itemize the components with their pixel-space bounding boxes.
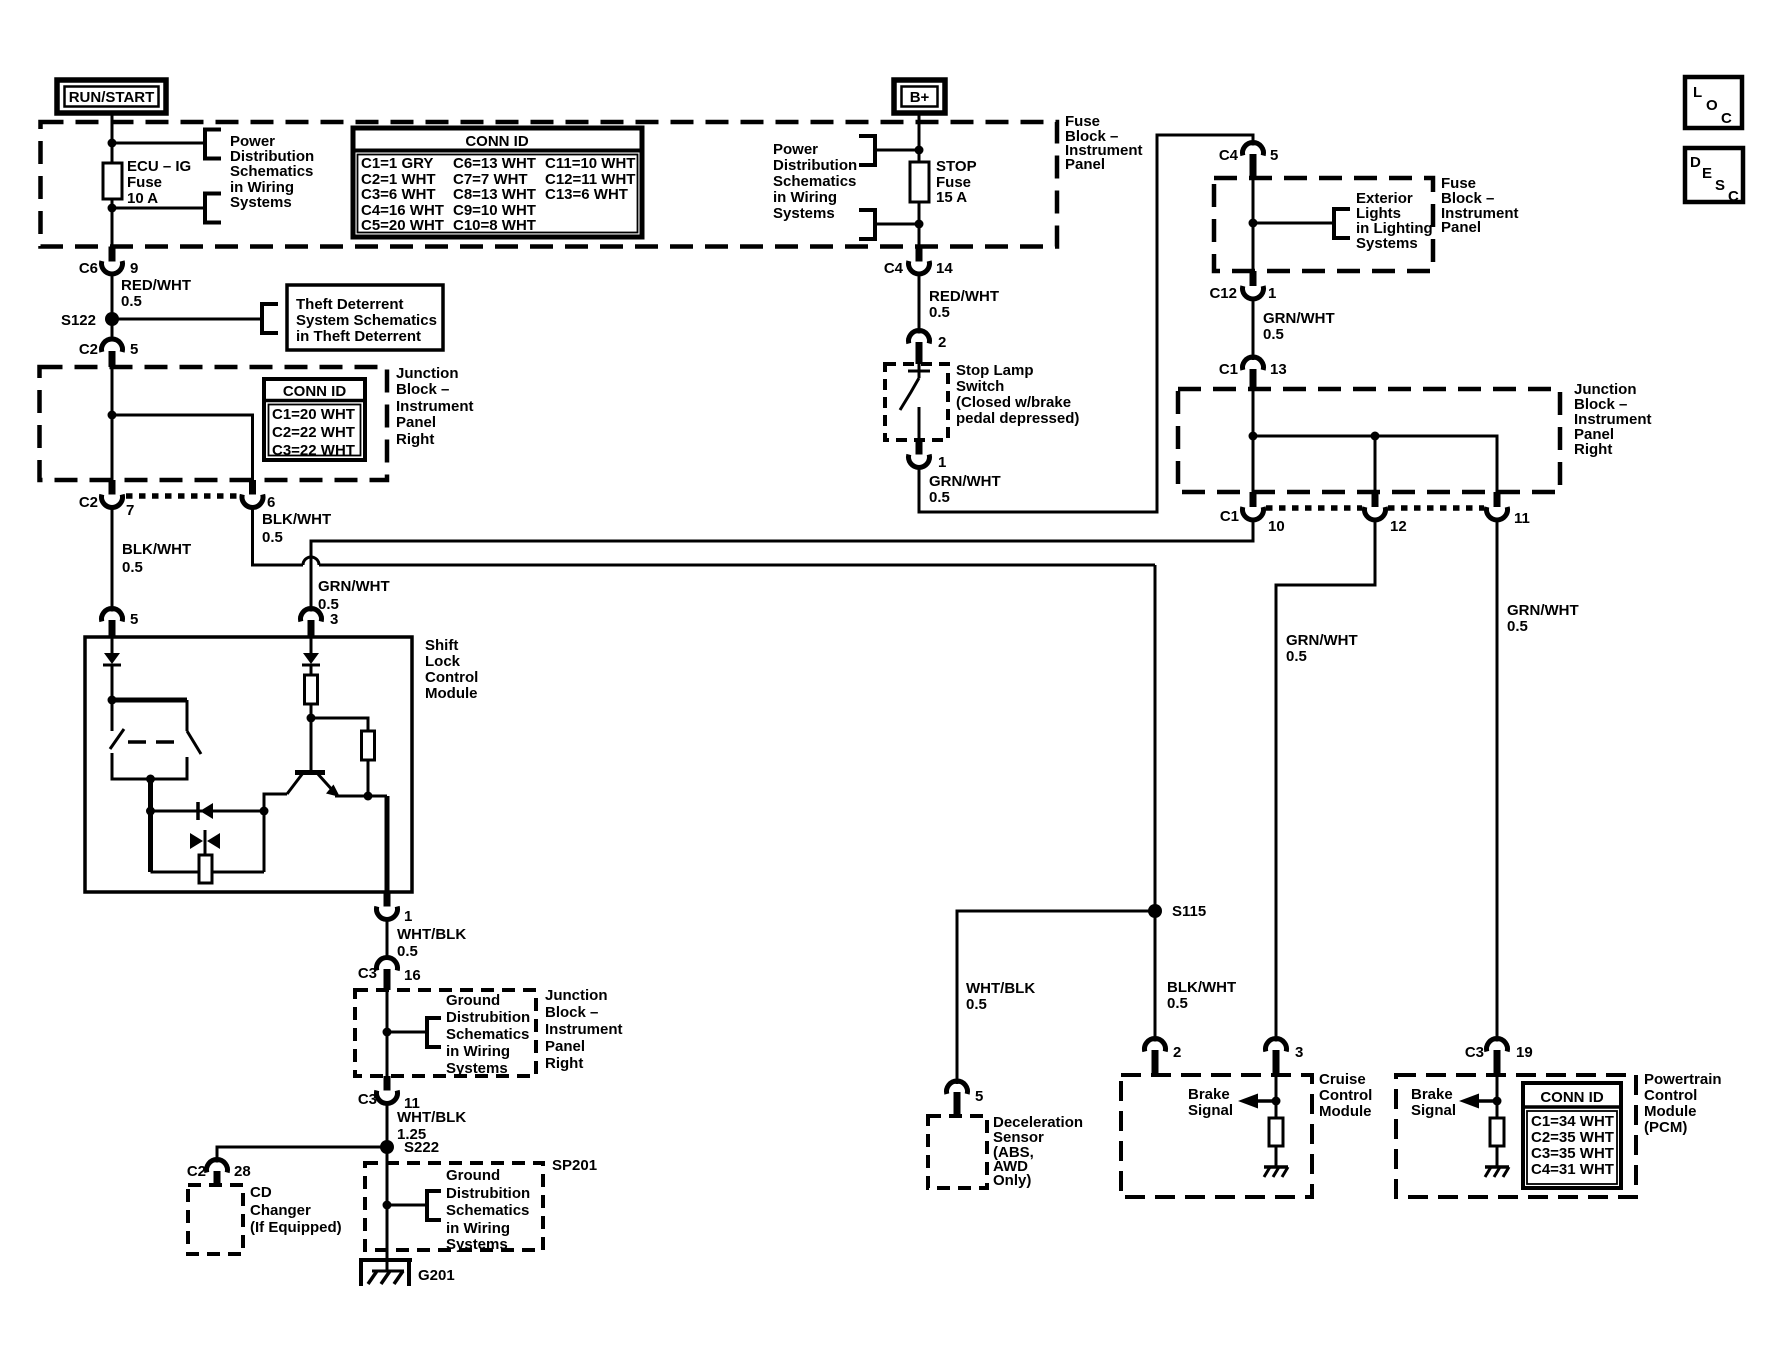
svg-text:C12: C12 [1209, 285, 1237, 302]
node: junction below ECU-IG fuse [108, 204, 117, 213]
cruise load resistor [1269, 1118, 1283, 1146]
connector cruise pin 2 [1145, 1039, 1182, 1075]
label Powertrain Control Module (PCM) [1644, 1071, 1722, 1136]
diode D-right (brake input) [302, 637, 320, 675]
wire below STOP fuse [918, 202, 921, 247]
wire to power distribution reference (upper) [112, 142, 205, 145]
svg-text:Changer: Changer [250, 1202, 311, 1219]
svg-text:Junction: Junction [396, 365, 459, 382]
svg-text:in Wiring: in Wiring [773, 189, 837, 206]
fuse STOP 15A [910, 162, 929, 202]
off-page bracket (exterior lights) [1334, 209, 1350, 238]
connector C1 pin 13 [1219, 357, 1287, 389]
svg-text:5: 5 [1270, 147, 1278, 164]
svg-text:Schematics: Schematics [446, 1202, 529, 1219]
svg-text:11: 11 [1514, 510, 1530, 527]
node below STOP fuse [915, 220, 924, 229]
label Stop Lamp Switch [956, 362, 1079, 427]
connector C2 pin 28 [187, 1160, 251, 1185]
wire to power distribution reference (lower) [112, 207, 205, 210]
label Junction Block - Instrument Panel Right (left) [396, 365, 474, 448]
svg-text:C5=20 WHT: C5=20 WHT [361, 217, 444, 234]
svg-text:Panel: Panel [1065, 156, 1105, 173]
wire switch to snubber rails (thick) [148, 779, 153, 872]
svg-text:BLK/WHT: BLK/WHT [262, 511, 331, 528]
node above switch [108, 696, 117, 705]
connector C3 pin 11 [358, 1076, 420, 1112]
label Ground Distrubition Schematics in Wiring Systems (2) [446, 1167, 530, 1253]
off-page bracket (ground distribution 2) [427, 1191, 441, 1220]
label Fuse Block - Instrument Panel (right) [1441, 175, 1519, 236]
svg-text:WHT/BLK: WHT/BLK [966, 980, 1035, 997]
svg-text:12: 12 [1390, 518, 1407, 535]
cruise internal ground [1264, 1146, 1288, 1177]
svg-text:L: L [1693, 84, 1702, 101]
wire pullup to emitter node [367, 760, 370, 796]
svg-text:G201: G201 [418, 1267, 455, 1284]
svg-text:Cruise: Cruise [1319, 1071, 1366, 1088]
node base [307, 714, 316, 723]
svg-text:Stop Lamp: Stop Lamp [956, 362, 1034, 379]
svg-text:14: 14 [936, 260, 953, 277]
svg-text:CONN ID: CONN ID [283, 383, 347, 400]
svg-text:1: 1 [404, 908, 412, 925]
label Fuse Block - Instrument Panel (top) [1065, 113, 1143, 173]
legend LOC box [1685, 77, 1742, 128]
cruise control module dashed box [1121, 1075, 1312, 1197]
svg-text:C1=1 GRY: C1=1 GRY [361, 155, 433, 172]
wire RUN/START to fuse block [111, 113, 114, 143]
svg-text:10 A: 10 A [127, 190, 158, 207]
svg-text:Right: Right [396, 431, 434, 448]
svg-text:Only): Only) [993, 1172, 1031, 1189]
svg-text:Module: Module [425, 685, 478, 702]
table CONN ID (PCM) [1523, 1083, 1621, 1188]
svg-text:0.5: 0.5 [966, 996, 987, 1013]
svg-text:C2: C2 [79, 494, 98, 511]
svg-text:C3=22 WHT: C3=22 WHT [272, 442, 355, 459]
svg-text:C4=31 WHT: C4=31 WHT [1531, 1161, 1614, 1178]
connector C12 pin 1 [1209, 271, 1276, 302]
svg-text:Panel: Panel [396, 414, 436, 431]
legend DESC box [1685, 148, 1743, 205]
connector shift lock pin 1 [377, 892, 413, 925]
resistor R-pullup [362, 731, 375, 760]
wire collector branch [264, 794, 287, 872]
wire to power distribution reference (B+ lower) [875, 223, 919, 226]
junction block (ground distribution) dashed box [355, 990, 536, 1076]
svg-text:BLK/WHT: BLK/WHT [1167, 979, 1236, 996]
label BLK/WHT 0.5 (cruise drop) [1167, 979, 1236, 1012]
svg-text:C10=8 WHT: C10=8 WHT [453, 217, 536, 234]
svg-text:Schematics: Schematics [230, 163, 313, 180]
svg-text:Ground: Ground [446, 992, 500, 1009]
switch lower U wire [112, 753, 187, 779]
connector C1 pin 10 [1220, 492, 1285, 535]
PCM brake signal arrow [1411, 1075, 1502, 1119]
shift lock control module box [85, 637, 412, 892]
connector pin 6 [242, 480, 275, 511]
wire S115 to deceleration sensor, WHT/BLK 0.5 [957, 911, 1155, 1084]
svg-text:Instrument: Instrument [545, 1021, 623, 1038]
svg-text:28: 28 [234, 1163, 251, 1180]
svg-text:0.5: 0.5 [121, 293, 142, 310]
label Ground Distrubition Schematics in Wiring Systems (1) [446, 992, 530, 1077]
svg-text:C13=6 WHT: C13=6 WHT [545, 186, 628, 203]
svg-text:0.5: 0.5 [929, 489, 950, 506]
fuse block instrument panel (right dashed box) [1214, 178, 1433, 271]
svg-text:6: 6 [267, 494, 275, 511]
svg-text:16: 16 [404, 967, 421, 984]
svg-text:0.5: 0.5 [1167, 995, 1188, 1012]
splice S122 [105, 312, 119, 326]
svg-text:5: 5 [975, 1088, 983, 1105]
wire S222 to CD changer [217, 1147, 387, 1163]
wire S222 through SP201 [386, 1147, 389, 1271]
svg-text:2: 2 [1173, 1044, 1181, 1061]
svg-text:Right: Right [1574, 441, 1612, 458]
off-page bracket (power distribution upper) [205, 130, 221, 159]
wire into ECU-IG fuse [111, 143, 114, 163]
connector C6 pin 9 [79, 247, 139, 278]
svg-text:Instrument: Instrument [396, 398, 474, 415]
svg-text:C4: C4 [884, 260, 904, 277]
svg-text:C11=10 WHT: C11=10 WHT [545, 155, 635, 172]
svg-text:Distribution: Distribution [773, 157, 857, 174]
wire pin 12 to cruise pin 3, GRN/WHT 0.5 [1276, 520, 1375, 1042]
wire C4-14 to stop lamp switch, RED/WHT 0.5 [918, 274, 921, 334]
junction block instrument panel right (left dashed box) [40, 367, 388, 480]
svg-text:Fuse: Fuse [127, 174, 162, 191]
fuse block instrument panel (top dashed box) [41, 122, 1058, 247]
svg-text:in Theft Deterrent: in Theft Deterrent [296, 328, 421, 345]
svg-text:0.5: 0.5 [262, 529, 283, 546]
stop lamp switch contacts [900, 364, 930, 440]
svg-text:Distrubition: Distrubition [446, 1185, 530, 1202]
node: junction above ECU-IG fuse [108, 139, 117, 148]
wire base node to pullup resistor [311, 718, 368, 731]
wire hop over GRN/WHT vertical [303, 557, 319, 565]
wire junction to pin 6 leg [112, 415, 253, 480]
svg-text:S115: S115 [1172, 903, 1206, 920]
svg-text:C2=22 WHT: C2=22 WHT [272, 424, 355, 441]
svg-text:Schematics: Schematics [446, 1026, 529, 1043]
off-page bracket (theft deterrent) [262, 304, 278, 333]
node above STOP fuse [915, 146, 924, 155]
node mid rail left [146, 807, 155, 816]
wire through right fuse block [1252, 178, 1255, 271]
connector stop lamp pin 1 [909, 440, 947, 471]
svg-text:C6: C6 [79, 260, 98, 277]
node ground dist [383, 1028, 392, 1037]
wire emitter node to output [335, 795, 368, 798]
svg-text:Switch: Switch [956, 378, 1004, 395]
svg-text:ECU – IG: ECU – IG [127, 158, 191, 175]
svg-text:C8=13 WHT: C8=13 WHT [453, 186, 536, 203]
label Junction Block - Instrument Panel Right (bottom) [545, 987, 623, 1072]
svg-text:7: 7 [126, 502, 134, 519]
mid rail with diode [151, 810, 265, 813]
wire below ECU-IG fuse [111, 199, 114, 247]
svg-text:9: 9 [130, 260, 138, 277]
svg-text:S122: S122 [61, 312, 96, 329]
splice package SP201 dashed box [365, 1163, 543, 1250]
svg-text:CONN ID: CONN ID [465, 133, 529, 150]
resistor R-snubber [199, 855, 212, 883]
svg-text:1: 1 [938, 454, 946, 471]
power feed RUN/START [57, 80, 166, 113]
power feed B+ [894, 80, 945, 113]
bottom rail [151, 871, 200, 874]
label Power Distribution Schematics in Wiring Systems (middle) [773, 141, 857, 222]
junction block instrument panel right (right dashed box) [1178, 389, 1560, 492]
svg-text:5: 5 [130, 341, 138, 358]
PCM internal ground [1485, 1146, 1509, 1177]
node mid rail right [260, 807, 269, 816]
svg-text:3: 3 [330, 611, 338, 628]
svg-text:GRN/WHT: GRN/WHT [1286, 632, 1358, 649]
connector C2 pin 5 [79, 339, 139, 367]
svg-text:1: 1 [1268, 285, 1276, 302]
cruise brake signal arrow [1188, 1075, 1281, 1119]
svg-text:10: 10 [1268, 518, 1285, 535]
svg-text:C1=20 WHT: C1=20 WHT [272, 406, 355, 423]
svg-text:Block –: Block – [545, 1004, 598, 1021]
connector C1 pin 12 [1365, 492, 1407, 535]
svg-text:WHT/BLK: WHT/BLK [397, 1109, 466, 1126]
svg-text:Panel: Panel [545, 1038, 585, 1055]
table CONN ID (fuse block top) [353, 128, 642, 237]
switch (shift lock) upper rail [112, 698, 187, 703]
wire pin 6 BLK/WHT 0.5 to S115 (long horizontal with hop) [262, 511, 331, 546]
connector shift lock pin 5 [102, 609, 139, 637]
splice S115 [1148, 904, 1162, 918]
svg-text:C1: C1 [1220, 508, 1239, 525]
svg-text:Systems: Systems [446, 1236, 508, 1253]
label Junction Block - Instrument Panel Right (right) [1574, 381, 1652, 458]
svg-text:Systems: Systems [446, 1060, 508, 1077]
svg-text:Module: Module [1319, 1103, 1372, 1120]
switch right contact and blade [186, 700, 189, 731]
resistor R-base [305, 675, 318, 704]
connector C2 pin 7 [79, 480, 135, 519]
svg-text:SP201: SP201 [552, 1157, 597, 1174]
svg-text:Theft Deterrent: Theft Deterrent [296, 296, 404, 313]
svg-text:Panel: Panel [1441, 219, 1481, 236]
connector C4 pin 5 [1219, 143, 1279, 178]
svg-text:C: C [1728, 188, 1739, 205]
wire C6-9 to S122, RED/WHT 0.5 [111, 274, 114, 339]
dotted connector line C2 7-6 [126, 493, 240, 499]
svg-text:E: E [1702, 165, 1712, 182]
wire through box [386, 990, 389, 1076]
wire to power distribution reference (B+ upper) [875, 149, 919, 152]
transistor Q1 [287, 718, 340, 797]
svg-text:C2: C2 [187, 1163, 206, 1180]
svg-text:Powertrain: Powertrain [1644, 1071, 1722, 1088]
node on switch lower wire [146, 775, 155, 784]
connector C3 pin 16 [358, 958, 421, 990]
svg-text:Brake: Brake [1411, 1086, 1453, 1103]
wire pin 11 to PCM C3-19, GRN/WHT 0.5 [1496, 520, 1499, 1042]
svg-text:15 A: 15 A [936, 189, 967, 206]
svg-text:Schematics: Schematics [773, 173, 856, 190]
svg-text:Brake: Brake [1188, 1086, 1230, 1103]
wire output (thick) to module bottom [385, 796, 390, 892]
node exterior lights [1249, 219, 1258, 228]
wire to ground dist reference 2 [387, 1204, 427, 1207]
svg-text:19: 19 [1516, 1044, 1533, 1061]
connector C1 pin 11 [1487, 492, 1530, 527]
svg-text:STOP: STOP [936, 158, 977, 175]
ground G201 [359, 1260, 455, 1286]
svg-text:in Wiring: in Wiring [446, 1043, 510, 1060]
wire C2-7 to shift lock pin 5, BLK/WHT 0.5 [111, 508, 114, 612]
PCM load resistor [1490, 1118, 1504, 1146]
connector stop lamp pin 2 [909, 331, 947, 364]
deceleration sensor dashed box [928, 1116, 987, 1188]
svg-text:C1: C1 [1219, 361, 1238, 378]
svg-text:0.5: 0.5 [1507, 618, 1528, 635]
connector cruise pin 3 [1266, 1039, 1304, 1075]
svg-text:System Schematics: System Schematics [296, 312, 437, 329]
svg-text:C2=35 WHT: C2=35 WHT [1531, 1129, 1614, 1146]
svg-text:GRN/WHT: GRN/WHT [929, 473, 1001, 490]
svg-text:C1=34 WHT: C1=34 WHT [1531, 1113, 1614, 1130]
svg-text:0.5: 0.5 [1286, 648, 1307, 665]
svg-text:Systems: Systems [230, 194, 292, 211]
svg-text:C4: C4 [1219, 147, 1239, 164]
svg-text:BLK/WHT: BLK/WHT [122, 541, 191, 558]
svg-text:13: 13 [1270, 361, 1287, 378]
svg-text:C3: C3 [1465, 1044, 1484, 1061]
connector deceleration sensor pin 5 [946, 1081, 983, 1116]
svg-text:Control: Control [425, 669, 478, 686]
dotted connector line C1 10-12 [1266, 505, 1362, 511]
diode D-mid (points left) [198, 802, 213, 820]
svg-text:Junction: Junction [545, 987, 608, 1004]
node SP201 [383, 1201, 392, 1210]
switch left contact [111, 700, 114, 731]
svg-text:0.5: 0.5 [397, 943, 418, 960]
svg-text:S222: S222 [404, 1139, 439, 1156]
label Shift Lock Control Module [425, 637, 478, 702]
svg-text:Control: Control [1644, 1087, 1697, 1104]
table CONN ID (junction block left) [264, 379, 365, 460]
svg-text:0.5: 0.5 [1263, 326, 1284, 343]
label Cruise Control Module [1319, 1071, 1372, 1120]
wire S122 to theft deterrent reference [112, 318, 262, 321]
svg-text:C: C [1721, 110, 1732, 127]
off-page bracket (ground distribution 1) [427, 1018, 441, 1047]
svg-text:Systems: Systems [773, 205, 835, 222]
node emitter [364, 792, 373, 801]
svg-text:GRN/WHT: GRN/WHT [1507, 602, 1579, 619]
svg-text:C2: C2 [79, 341, 98, 358]
svg-text:5: 5 [130, 611, 138, 628]
switch gang dashes [128, 740, 184, 744]
wire pin1 GRN/WHT 0.5 routed up to C4-5 [919, 135, 1253, 512]
svg-text:3: 3 [1295, 1044, 1303, 1061]
wire C3-11 to S222, WHT/BLK 1.25 [386, 1104, 389, 1148]
svg-text:Right: Right [545, 1055, 583, 1072]
svg-text:Distrubition: Distrubition [446, 1009, 530, 1026]
svg-text:GRN/WHT: GRN/WHT [318, 578, 390, 595]
svg-text:in Wiring: in Wiring [446, 1220, 510, 1237]
connector C4 pin 14 [884, 247, 954, 278]
wire GRN/WHT from C1-10 long horizontal [311, 520, 1253, 612]
CD changer dashed box [188, 1185, 243, 1254]
svg-text:GRN/WHT: GRN/WHT [1263, 310, 1335, 327]
connector shift lock pin 3 [301, 609, 339, 637]
off-page bracket (B+ power distribution lower) [859, 210, 875, 239]
powertrain control module dashed box [1396, 1075, 1636, 1197]
wire pin1 to C3-16, WHT/BLK 0.5 [386, 920, 389, 958]
svg-text:Signal: Signal [1411, 1102, 1456, 1119]
splice S222 [380, 1140, 394, 1154]
svg-text:RED/WHT: RED/WHT [121, 277, 191, 294]
svg-text:B+: B+ [910, 89, 930, 106]
callout box Theft Deterrent [287, 285, 443, 350]
svg-text:Module: Module [1644, 1103, 1697, 1120]
svg-text:D: D [1690, 154, 1701, 171]
wire C12-1 to C1-13, GRN/WHT 0.5 [1252, 299, 1255, 361]
wire pin 6 line down to S115 and cruise pin 2 [1154, 565, 1157, 1042]
svg-text:WHT/BLK: WHT/BLK [397, 926, 466, 943]
svg-text:(Closed w/brake: (Closed w/brake [956, 394, 1071, 411]
svg-text:2: 2 [938, 334, 946, 351]
wires inside right junction block [1252, 389, 1255, 492]
svg-text:Systems: Systems [1356, 235, 1418, 252]
svg-text:Signal: Signal [1188, 1102, 1233, 1119]
svg-text:CD: CD [250, 1184, 272, 1201]
label CD Changer (If Equipped) [250, 1184, 342, 1236]
svg-text:S: S [1715, 177, 1725, 194]
wire through junction block (left) [111, 367, 114, 480]
wire resistor to base node [310, 704, 313, 718]
label Deceleration Sensor (ABS, AWD Only) [993, 1114, 1083, 1189]
off-page bracket (power distribution lower) [205, 194, 221, 223]
wire to exterior lights reference [1253, 222, 1334, 225]
connector PCM C3 pin 19 [1465, 1039, 1533, 1075]
diode D-left (ignition input) [103, 637, 121, 700]
svg-text:0.5: 0.5 [929, 304, 950, 321]
svg-text:0.5: 0.5 [122, 559, 143, 576]
svg-text:C6=13 WHT: C6=13 WHT [453, 155, 536, 172]
svg-text:Power: Power [773, 141, 818, 158]
svg-text:RED/WHT: RED/WHT [929, 288, 999, 305]
wire to ground dist reference [387, 1031, 427, 1034]
svg-text:C3=35 WHT: C3=35 WHT [1531, 1145, 1614, 1162]
svg-text:CONN ID: CONN ID [1540, 1089, 1604, 1106]
svg-text:C3: C3 [358, 965, 377, 982]
svg-text:Shift: Shift [425, 637, 458, 654]
dotted connector line C1 12-11 [1388, 505, 1484, 511]
node inside junction block [108, 411, 117, 420]
svg-text:Lock: Lock [425, 653, 461, 670]
off-page bracket (B+ power distribution upper) [859, 136, 875, 165]
label Power Distribution Schematics in Wiring Systems (left) [230, 133, 314, 211]
svg-text:O: O [1706, 97, 1718, 114]
label Exterior Lights in Lighting Systems [1356, 190, 1433, 252]
svg-text:(PCM): (PCM) [1644, 1119, 1687, 1136]
svg-text:pedal depressed): pedal depressed) [956, 410, 1079, 427]
wire B+ to fuse block [918, 113, 921, 162]
zener suppressor (bowtie) [190, 830, 220, 855]
svg-text:RUN/START: RUN/START [69, 89, 155, 106]
svg-text:Control: Control [1319, 1087, 1372, 1104]
svg-text:Block –: Block – [396, 381, 449, 398]
